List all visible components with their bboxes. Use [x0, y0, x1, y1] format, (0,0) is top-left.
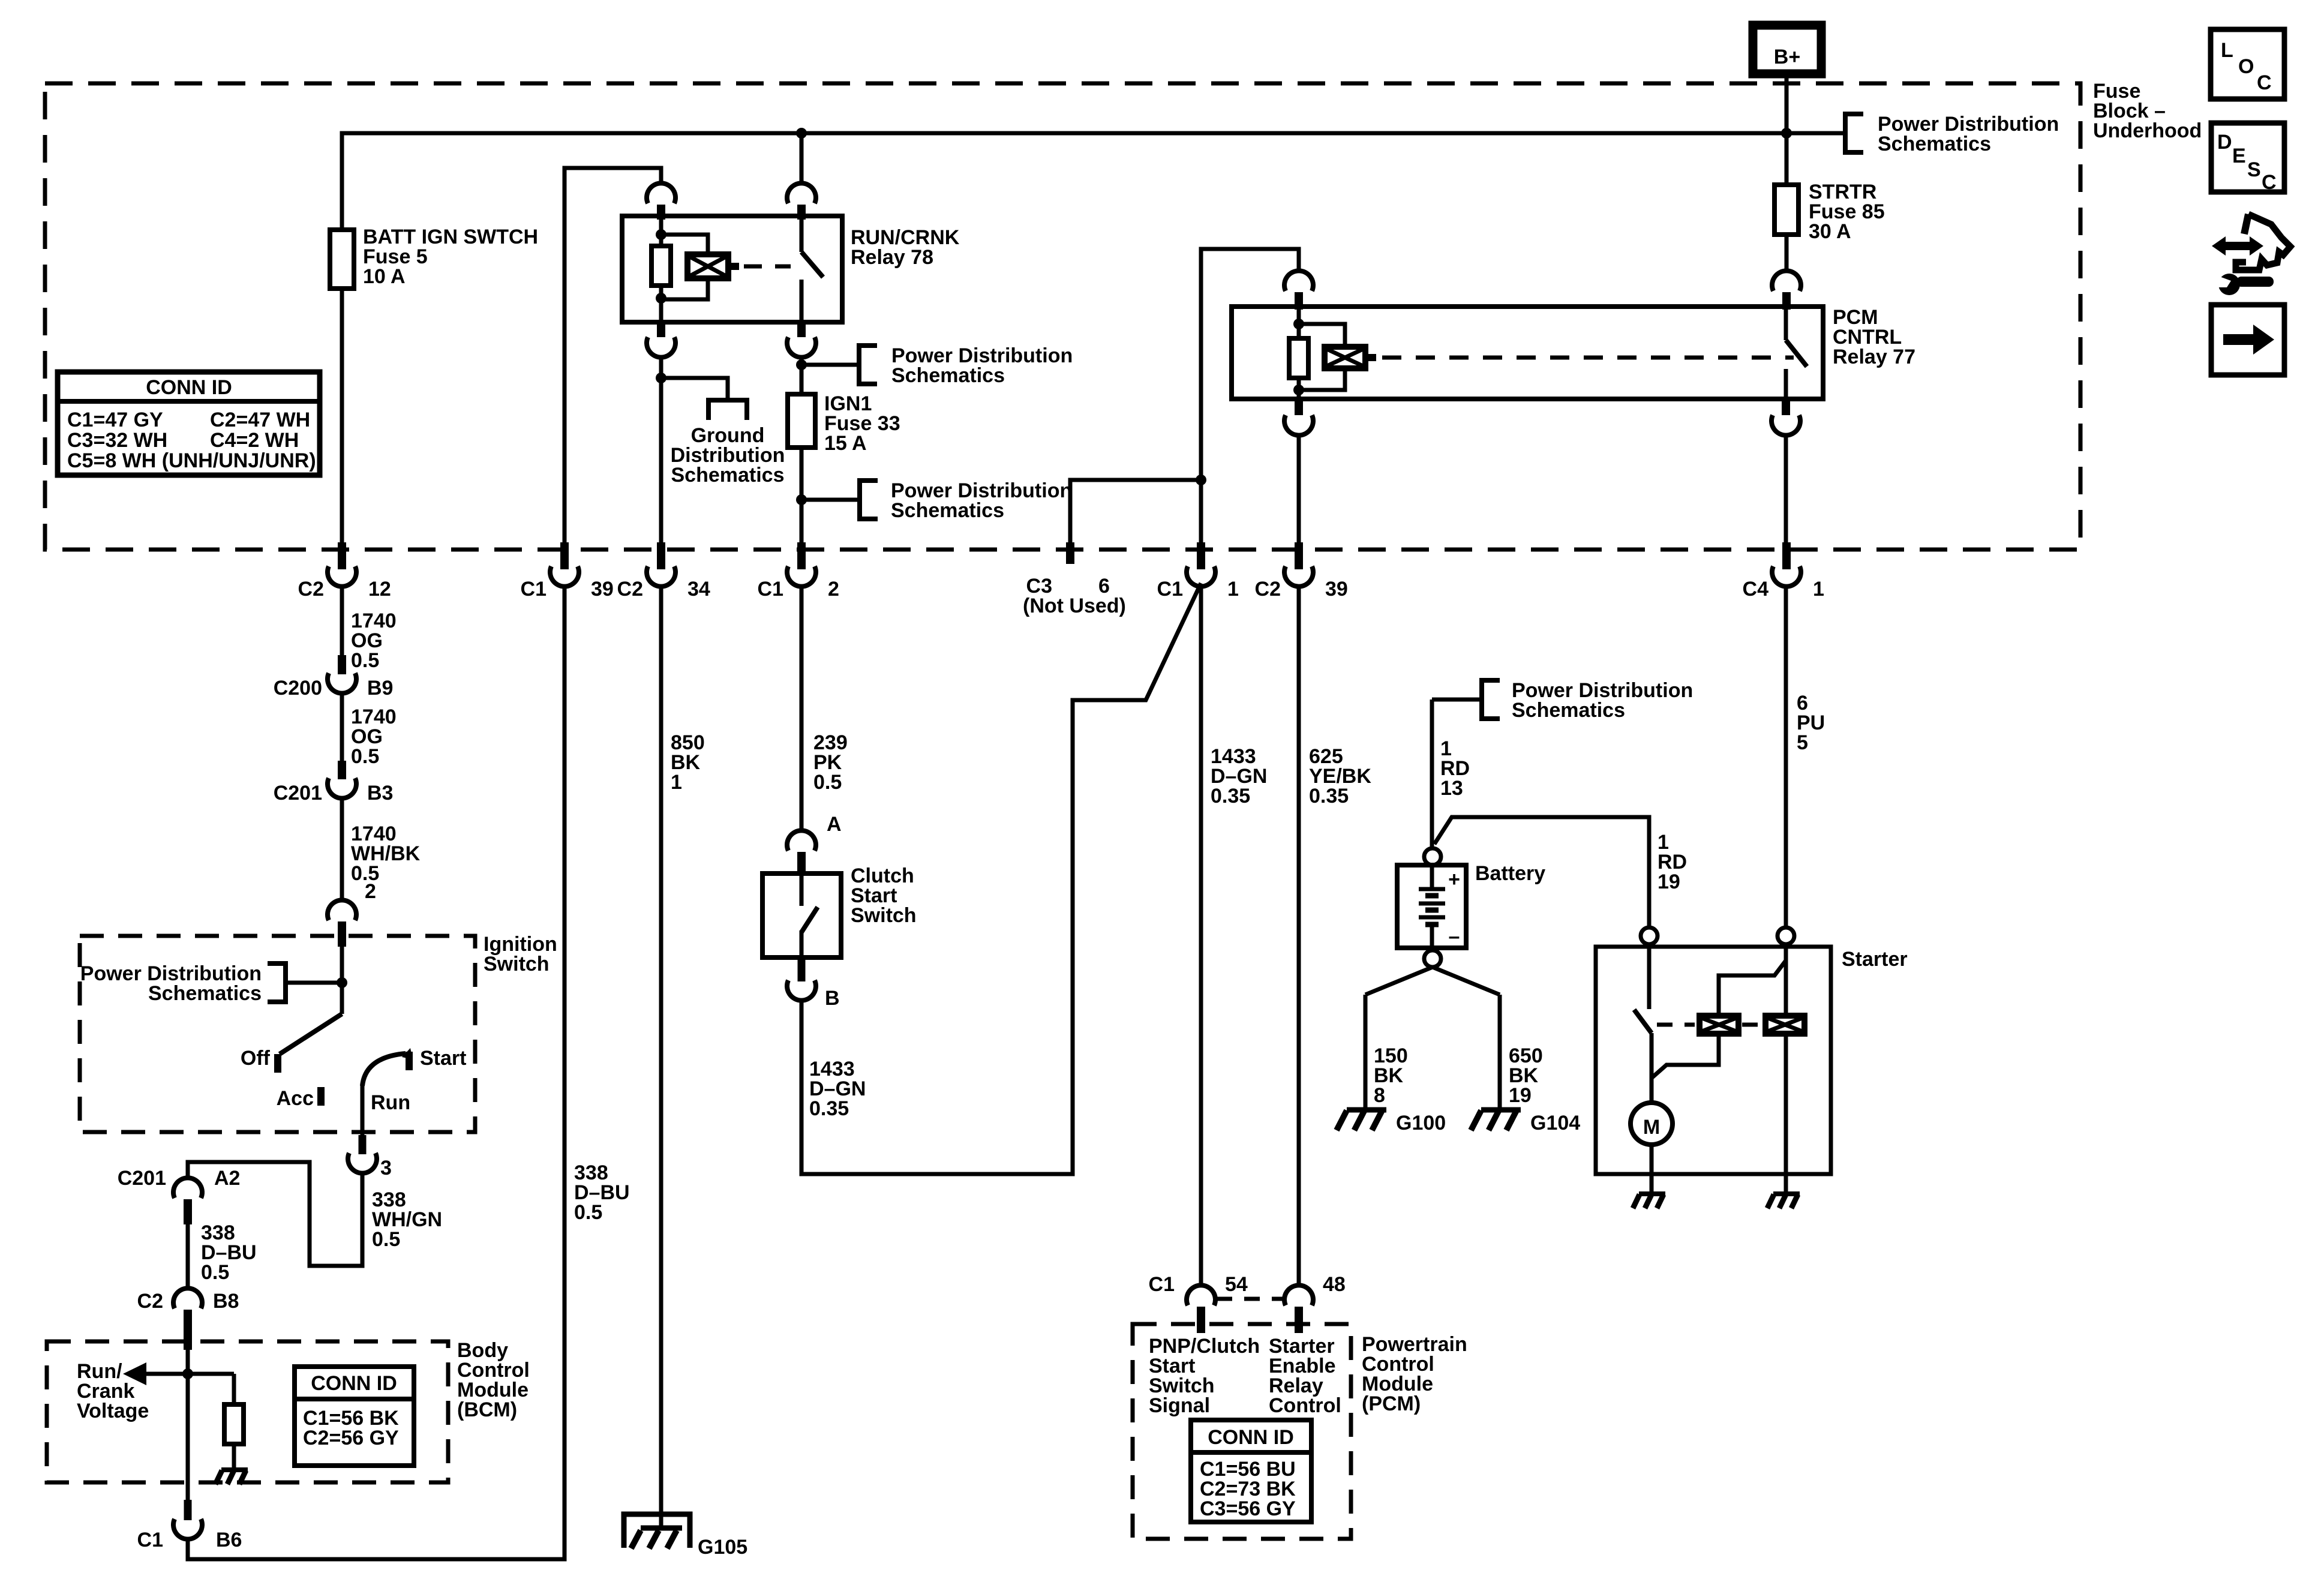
- svg-text:Schematics: Schematics: [1512, 699, 1625, 722]
- node ignition wiper: [337, 977, 347, 988]
- svg-text:Underhood: Underhood: [2093, 119, 2202, 142]
- node power distribution tap 1: [796, 359, 807, 370]
- wire 338 WH/GN route: [188, 1162, 362, 1266]
- wire 338 D-BU to BCM: [186, 1224, 190, 1290]
- ignition wiper blade to Off: [280, 1014, 342, 1054]
- svg-text:C1: C1: [521, 578, 547, 601]
- node bus / B+ / STRTR: [1781, 128, 1792, 139]
- svg-text:Run: Run: [371, 1091, 410, 1114]
- dashed link between PCM connectors: [1217, 1297, 1284, 1301]
- svg-text:A: A: [827, 813, 842, 836]
- svg-text:Start: Start: [420, 1047, 466, 1070]
- svg-text:Relay 78: Relay 78: [851, 246, 933, 269]
- svg-text:B9: B9: [367, 677, 393, 700]
- B+ terminal: [1753, 25, 1821, 74]
- wire 1433 D-GN clutch to PCM C1: [801, 583, 1201, 1174]
- svg-text:C2: C2: [1255, 578, 1281, 601]
- node bus / RUN CRNK switch wire: [796, 128, 807, 139]
- CONN ID table PCM: [1191, 1420, 1311, 1522]
- connector PCM 48: [1284, 1285, 1313, 1305]
- svg-text:C4: C4: [1743, 578, 1769, 601]
- svg-text:0.5: 0.5: [574, 1201, 602, 1224]
- wire 239 PK: [800, 585, 804, 832]
- wire relay77 coil branch bottom: [1299, 368, 1345, 390]
- coil relay77: [1325, 347, 1365, 368]
- Run to Start curve: [362, 1053, 406, 1086]
- wire fuse5 to border: [340, 289, 344, 547]
- svg-text:34: 34: [687, 578, 710, 601]
- svg-text:19: 19: [1509, 1084, 1532, 1107]
- svg-text:8: 8: [1374, 1084, 1385, 1107]
- switch relay78: [800, 218, 804, 252]
- off-page: Power Distribution (below IGN1): [801, 498, 860, 502]
- svg-text:C1: C1: [137, 1529, 163, 1551]
- CONN ID table BCM: [295, 1367, 414, 1466]
- svg-text:Schematics: Schematics: [671, 464, 785, 487]
- connector relay77 pin bottom-right: [1782, 399, 1790, 415]
- connector ignition switch pin 2: [328, 900, 356, 920]
- relay78 coil actuator stub: [728, 263, 739, 270]
- wire hold-in to ground: [1784, 1034, 1788, 1194]
- svg-text:C201: C201: [118, 1167, 166, 1190]
- connector C201 B3: [338, 761, 346, 779]
- connector C1 B6: [184, 1500, 192, 1520]
- svg-text:(BCM): (BCM): [457, 1398, 517, 1421]
- icon forward arrow box: [2211, 305, 2284, 375]
- svg-text:(Not Used): (Not Used): [1023, 595, 1126, 617]
- svg-text:0.5: 0.5: [372, 1228, 400, 1251]
- resistor relay77: [1289, 338, 1308, 378]
- switch starter solenoid contact: [1634, 1010, 1652, 1033]
- svg-text:C2=47 WH: C2=47 WH: [210, 409, 310, 431]
- BCM dashed box: [47, 1341, 448, 1482]
- svg-text:C: C: [2257, 71, 2272, 94]
- icon DESC box: [2211, 123, 2284, 192]
- svg-text:Signal: Signal: [1149, 1394, 1210, 1417]
- wire to ground distribution fork: [661, 378, 728, 400]
- wire 1 RD 13: [1430, 700, 1434, 848]
- connector C1 pin 2: [797, 542, 806, 569]
- ground starter solenoid: [1773, 1191, 1800, 1196]
- ignition switch dashed box: [80, 936, 475, 1132]
- svg-text:15 A: 15 A: [824, 432, 867, 455]
- svg-text:13: 13: [1440, 777, 1463, 800]
- svg-text:2: 2: [365, 880, 376, 903]
- solenoid pull-in winding: [1700, 1016, 1739, 1034]
- svg-text:C5=8 WH (UNH/UNJ/UNR): C5=8 WH (UNH/UNJ/UNR): [67, 449, 316, 472]
- wire battery ground split: [1365, 967, 1433, 995]
- svg-text:Schematics: Schematics: [148, 982, 262, 1005]
- relay RUN/CRNK Relay 78 box: [622, 216, 842, 322]
- wire 1740 OG segment 2: [340, 692, 344, 761]
- node relay77 coil top: [1293, 319, 1304, 329]
- ground G105: [624, 1514, 690, 1548]
- svg-text:Switch: Switch: [851, 904, 917, 927]
- connector C2 B8: [173, 1288, 202, 1308]
- svg-text:C3=56 GY: C3=56 GY: [1200, 1497, 1296, 1520]
- icon component-view outline: [2236, 214, 2290, 270]
- svg-text:G100: G100: [1396, 1112, 1446, 1134]
- icon component-view arrow: [2212, 236, 2263, 256]
- relay78 actuator dashed link: [744, 265, 791, 269]
- starter S jog to pull-in winding: [1719, 960, 1786, 1016]
- connector relay78 pin bottom-left: [657, 322, 665, 337]
- svg-text:39: 39: [1325, 578, 1348, 601]
- connector C201 A2: [173, 1178, 202, 1198]
- wire pull-in to motor junction: [1652, 1034, 1719, 1078]
- wire relay78 coil branch: [661, 235, 708, 254]
- wire BCM to 338 D-BU riser: [188, 585, 565, 1559]
- svg-text:B8: B8: [213, 1290, 239, 1313]
- wire relay77 coil feed elbow: [1201, 249, 1299, 547]
- svg-text:3: 3: [380, 1157, 392, 1179]
- wire motor to ground: [1650, 1145, 1654, 1194]
- node relay78 coil bottom: [656, 293, 666, 304]
- svg-text:C201: C201: [274, 782, 322, 804]
- svg-text:C1: C1: [1157, 578, 1183, 601]
- svg-text:Schematics: Schematics: [1878, 133, 1991, 155]
- contact Start: [406, 1052, 413, 1070]
- starter B terminal: [1641, 927, 1658, 944]
- svg-text:30 A: 30 A: [1809, 220, 1851, 243]
- wire C3 not used: [1070, 480, 1201, 547]
- dashed link solenoid: [1657, 1023, 1695, 1027]
- wire 1740 OG segment 1: [340, 585, 344, 655]
- connector relay77 switch feed: [1772, 271, 1801, 291]
- svg-text:C: C: [2262, 171, 2277, 194]
- wire relay78 right pin down: [800, 356, 804, 394]
- wire 1433 D-GN PCM signal: [1199, 585, 1203, 1287]
- PCM dashed box: [1133, 1324, 1351, 1539]
- connector relay78 pin bottom-right: [797, 322, 806, 337]
- node relay77 coil bottom: [1293, 385, 1304, 395]
- contact Off: [274, 1054, 281, 1073]
- svg-text:Off: Off: [241, 1047, 271, 1070]
- wire BCM to C1 B6: [186, 1482, 190, 1503]
- svg-text:M: M: [1643, 1116, 1660, 1139]
- svg-text:S: S: [2247, 158, 2261, 181]
- node BCM run/crank: [182, 1368, 193, 1379]
- wire 6 PU 5: [1784, 585, 1788, 927]
- svg-text:1: 1: [1227, 578, 1239, 601]
- fuse IGN1 Fuse 33: [788, 394, 815, 448]
- svg-text:Control: Control: [1269, 1394, 1341, 1417]
- svg-text:48: 48: [1323, 1273, 1346, 1296]
- svg-text:0.35: 0.35: [809, 1097, 849, 1120]
- svg-text:(PCM): (PCM): [1362, 1392, 1421, 1415]
- off-page: Power Distribution (battery feed): [1432, 698, 1482, 702]
- svg-text:Switch: Switch: [484, 953, 550, 975]
- svg-text:0.5: 0.5: [201, 1261, 229, 1284]
- switch clutch blade: [800, 873, 804, 906]
- svg-text:Starter: Starter: [1842, 948, 1908, 971]
- starter box: [1596, 947, 1831, 1174]
- connector C2 pin 39: [1295, 542, 1303, 569]
- svg-text:–: –: [1449, 925, 1460, 948]
- wire BCM internal: [186, 1350, 190, 1482]
- arrow Run/Crank Voltage: [145, 1372, 234, 1376]
- relay78 coil wire in box: [659, 218, 663, 246]
- connector clutch A: [787, 830, 816, 851]
- svg-text:O: O: [2238, 55, 2254, 78]
- icon LOC box: [2211, 29, 2284, 99]
- node relay78 coil top: [656, 229, 666, 240]
- connector relay78 pin top-left: [647, 183, 675, 203]
- bus wire from BATT IGN fuse to STRTR column: [342, 133, 1786, 230]
- svg-text:0.5: 0.5: [351, 745, 379, 768]
- svg-text:G105: G105: [698, 1536, 747, 1559]
- svg-text:B6: B6: [216, 1529, 242, 1551]
- switch relay77: [1784, 307, 1788, 340]
- connector C2 pin 12: [338, 542, 346, 569]
- svg-text:Relay 77: Relay 77: [1833, 346, 1915, 368]
- connector relay77 coil pin top: [1284, 271, 1313, 291]
- battery + terminal: [1424, 848, 1441, 865]
- ground starter motor: [1639, 1191, 1665, 1196]
- resistor relay78: [651, 246, 671, 286]
- wire relay77 coil branch: [1299, 324, 1345, 347]
- wire 850 BK: [659, 585, 663, 1528]
- wire relay78 coil branch bottom: [661, 278, 708, 299]
- ground BCM internal: [221, 1467, 248, 1472]
- battery plates: [1430, 865, 1434, 887]
- svg-text:Schematics: Schematics: [891, 499, 1004, 522]
- battery box: [1397, 865, 1466, 948]
- svg-text:C2: C2: [137, 1290, 163, 1313]
- wire relay77 switch pin to border: [1784, 434, 1788, 547]
- relay78 wire resistor to pin: [659, 286, 663, 322]
- wire relay77 coil pin to border: [1297, 434, 1301, 547]
- svg-text:C2: C2: [298, 578, 324, 601]
- svg-text:CONN ID: CONN ID: [146, 376, 232, 399]
- starter S wire: [1784, 944, 1788, 1016]
- wire relay78 left pin down: [659, 356, 663, 547]
- starter S terminal: [1777, 927, 1794, 944]
- wire pin2 to wiper: [340, 947, 344, 1014]
- wire relay78 coil feed elbow: [565, 168, 661, 543]
- fuse BATT IGN SWTCH Fuse 5: [330, 230, 354, 289]
- ground G104: [1481, 1107, 1521, 1113]
- relay77 actuator dashed link: [1382, 356, 1794, 360]
- svg-text:10 A: 10 A: [363, 265, 406, 288]
- off-page: Power Distribution (top right): [1786, 131, 1845, 136]
- svg-text:C1=47 GY: C1=47 GY: [67, 409, 163, 431]
- svg-text:B+: B+: [1774, 46, 1800, 68]
- svg-text:19: 19: [1658, 870, 1680, 893]
- svg-text:C2: C2: [617, 578, 643, 601]
- connector PCM C1 54: [1187, 1285, 1215, 1305]
- svg-text:0.5: 0.5: [351, 649, 379, 672]
- wire resistor to ground: [232, 1444, 236, 1469]
- off-page: Power Distribution (below relay78): [801, 363, 859, 367]
- ground G100: [1347, 1107, 1386, 1113]
- wire IGN1 down: [800, 448, 804, 547]
- wire 1740 WH/BK: [340, 797, 344, 902]
- connector C200 B9: [338, 655, 346, 674]
- wire 1 RD 19: [1434, 817, 1649, 927]
- wire Run contact down: [361, 1085, 365, 1135]
- svg-text:C1: C1: [758, 578, 783, 601]
- svg-text:+: +: [1448, 868, 1460, 891]
- svg-text:C3=32 WH: C3=32 WH: [67, 429, 167, 452]
- wire bus to relay78 switch pin: [800, 133, 804, 184]
- svg-text:0.35: 0.35: [1309, 785, 1349, 807]
- svg-text:CONN ID: CONN ID: [311, 1372, 397, 1395]
- svg-text:2: 2: [828, 578, 839, 601]
- svg-text:39: 39: [591, 578, 614, 601]
- connector C1 pin 39: [560, 542, 569, 569]
- icon wrench: [2218, 274, 2240, 295]
- svg-text:1: 1: [1813, 578, 1824, 601]
- svg-text:L: L: [2221, 39, 2233, 62]
- connector clutch B: [798, 957, 806, 981]
- connector C3 pin 6 not used: [1066, 542, 1074, 564]
- fuse block underhood dashed border: [45, 83, 2080, 550]
- relay PCM CNTRL Relay 77 box: [1232, 307, 1823, 399]
- relay77 coil wire: [1297, 308, 1301, 338]
- node power distribution tap 2: [796, 494, 807, 505]
- svg-text:Battery: Battery: [1475, 862, 1545, 885]
- svg-text:1: 1: [671, 771, 682, 794]
- motor M: [1631, 1103, 1673, 1145]
- svg-text:12: 12: [368, 578, 391, 601]
- svg-text:5: 5: [1797, 731, 1808, 754]
- connector C4 pin 1: [1782, 542, 1791, 569]
- relay77 coil actuator stub: [1365, 354, 1376, 361]
- off-page: Ground Distribution fork: [708, 400, 747, 420]
- wire 625 YE/BK: [1297, 585, 1301, 1287]
- coil relay78: [687, 254, 728, 278]
- connector relay78 pin top-right: [787, 183, 816, 203]
- battery - terminal: [1424, 950, 1441, 967]
- svg-text:B: B: [825, 987, 840, 1010]
- svg-text:Acc: Acc: [277, 1087, 314, 1110]
- svg-text:Schematics: Schematics: [891, 364, 1005, 387]
- CONN ID table fuse block: [58, 372, 320, 475]
- solenoid hold-in winding: [1765, 1016, 1804, 1034]
- wire B+ down to bus: [1785, 74, 1789, 139]
- svg-text:B3: B3: [367, 782, 393, 804]
- svg-text:Voltage: Voltage: [77, 1400, 149, 1422]
- connector C1 pin 1: [1197, 542, 1205, 569]
- clutch start switch box: [762, 873, 841, 957]
- svg-text:E: E: [2232, 145, 2246, 167]
- connector ignition pin 3: [359, 1135, 367, 1154]
- resistor BCM pulldown: [232, 1374, 236, 1404]
- relay77 wire resistor to box edge: [1297, 378, 1301, 399]
- svg-text:A2: A2: [214, 1167, 240, 1190]
- svg-text:G104: G104: [1530, 1112, 1580, 1134]
- connector relay77 pin bottom-left: [1295, 399, 1303, 415]
- starter contact wire from B: [1647, 944, 1652, 1009]
- svg-text:C200: C200: [274, 677, 322, 700]
- svg-text:C1: C1: [1149, 1273, 1175, 1296]
- fuse STRTR Fuse 85: [1785, 133, 1789, 185]
- off-page: Power Distribution (ignition): [286, 981, 342, 985]
- svg-text:D: D: [2217, 131, 2232, 154]
- svg-text:0.35: 0.35: [1211, 785, 1250, 807]
- svg-text:CONN ID: CONN ID: [1208, 1426, 1294, 1449]
- node C3 tap: [1196, 475, 1206, 485]
- contact Acc tick: [317, 1087, 325, 1106]
- svg-text:54: 54: [1225, 1273, 1248, 1296]
- svg-text:C2=56 GY: C2=56 GY: [303, 1427, 399, 1449]
- connector C2 pin 34: [657, 542, 665, 569]
- svg-text:0.5: 0.5: [813, 771, 842, 794]
- svg-text:C4=2 WH: C4=2 WH: [210, 429, 299, 452]
- node ground distribution tap: [656, 373, 666, 383]
